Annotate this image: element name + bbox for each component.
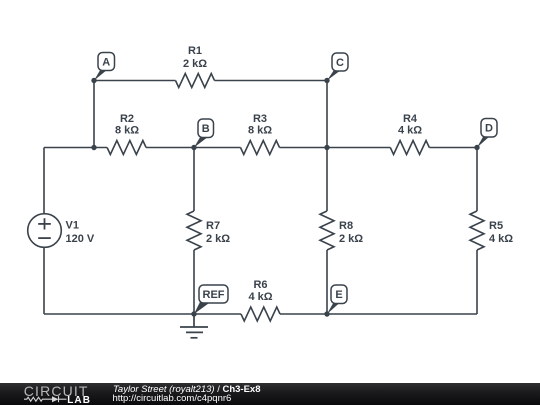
svg-text:4 kΩ: 4 kΩ [489, 233, 513, 245]
resistor R8 (2 k&#937;) zigzag [320, 211, 334, 250]
svg-text:R6: R6 [253, 279, 267, 291]
svg-text:2 kΩ: 2 kΩ [183, 58, 207, 70]
wire: left rail upper (mid rail to V1 +) [43, 148, 45, 214]
junction dot at REF node [191, 311, 196, 316]
resistor R4 label [398, 113, 422, 137]
wire: mid rail, R2 to R3 (through node B) [146, 147, 240, 149]
node D flag [477, 119, 497, 148]
wire: node C vertical upper (C to mid rail) [326, 81, 328, 148]
wire: node A vertical (x=94, y 80.5..147.5) [93, 81, 95, 148]
resistor R8 label [339, 220, 363, 245]
footer title line [113, 384, 261, 395]
svg-text:R3: R3 [253, 113, 267, 125]
svg-text:120 V: 120 V [66, 233, 95, 245]
resistor R4 (4 k&#937;) zigzag [390, 141, 429, 155]
ground symbol at REF node [180, 314, 208, 338]
footer url line [113, 393, 232, 404]
wire: node B column lower (R7 to REF) [193, 250, 195, 314]
node E flag [327, 285, 347, 314]
node B flag [194, 119, 214, 148]
wire: right rail lower (R5 to bottom rail) [476, 250, 478, 314]
resistor R5 (4 k&#937;) zigzag [470, 211, 484, 250]
voltage source V1 (120 V) [28, 214, 62, 248]
junction dot at node A [91, 78, 96, 83]
wire: bottom rail right segment (R6 through E to right rail) [280, 313, 477, 315]
wire: mid rail, R4 to node D [429, 147, 477, 149]
wire: top rail right segment (R1 to C) [215, 80, 328, 82]
svg-text:E: E [335, 289, 342, 301]
node C flag [327, 53, 348, 81]
node A flag [94, 53, 115, 81]
svg-text:R2: R2 [120, 113, 134, 125]
wire: node B column upper (B to R7) [193, 148, 195, 212]
resistor R2 label [115, 113, 139, 137]
svg-text:C: C [336, 57, 344, 69]
svg-text:R4: R4 [403, 113, 418, 125]
wire: node C column middle (mid rail to R8) [326, 148, 328, 212]
resistor R7 label [206, 220, 230, 245]
resistor R1 label [183, 45, 207, 70]
resistor R1 (2 k&#937;) zigzag [176, 74, 215, 88]
svg-text:REF: REF [203, 289, 225, 301]
resistor R6 label [248, 279, 272, 303]
svg-text:D: D [485, 123, 493, 135]
svg-text:R7: R7 [206, 220, 220, 232]
junction dot at node B [191, 145, 196, 150]
wire: top rail left segment (A to R1) [94, 80, 176, 82]
resistor R2 (8 k&#937;) zigzag [107, 141, 146, 155]
resistor R5 label [489, 220, 513, 245]
wire: left rail lower (V1 - to bottom rail) [43, 248, 45, 314]
svg-text:B: B [202, 123, 210, 135]
svg-text:8 kΩ: 8 kΩ [115, 125, 139, 137]
junction dot at node E [324, 311, 329, 316]
resistor R3 label [248, 113, 272, 137]
resistor R7 (2 k&#937;) zigzag [187, 211, 201, 250]
junction dot at node C [324, 78, 329, 83]
junction dot, C column crosses mid rail [324, 145, 329, 150]
junction dot, A column meets mid rail [91, 145, 96, 150]
wire: mid rail, left rail to R2 [44, 147, 107, 149]
wire: mid rail, R3 to R4 (through node C column) [280, 147, 391, 149]
resistor R6 (4 k&#937;) zigzag [241, 307, 280, 321]
wire: bottom rail left segment (to R6) [44, 313, 241, 315]
svg-text:LAB: LAB [67, 395, 91, 405]
node REF flag [194, 285, 228, 314]
svg-text:R8: R8 [339, 220, 353, 232]
resistor R3 (8 k&#937;) zigzag [241, 141, 280, 155]
wire: right rail upper (D to R5) [476, 148, 478, 212]
svg-text:4 kΩ: 4 kΩ [248, 291, 272, 303]
svg-text:R5: R5 [489, 220, 503, 232]
svg-text:V1: V1 [66, 220, 79, 232]
voltage source V1 label [66, 220, 95, 246]
CircuitLab logo [0, 383, 100, 405]
svg-text:4 kΩ: 4 kΩ [398, 125, 422, 137]
wire: node C column lower (R8 to node E) [326, 250, 328, 314]
svg-text:A: A [102, 56, 110, 68]
svg-text:R1: R1 [188, 45, 202, 57]
junction dot at node D [474, 145, 479, 150]
svg-text:2 kΩ: 2 kΩ [339, 233, 363, 245]
svg-text:2 kΩ: 2 kΩ [206, 233, 230, 245]
svg-text:8 kΩ: 8 kΩ [248, 125, 272, 137]
